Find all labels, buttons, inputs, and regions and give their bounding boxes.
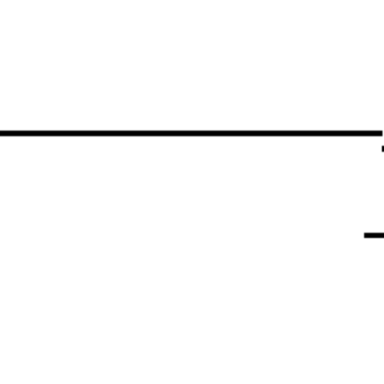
wire (horizontal wire segment entering from right edge) <box>364 233 384 238</box>
wire (long horizontal wire segment) <box>0 131 383 137</box>
wire (stub cut off at right edge) <box>382 146 384 152</box>
